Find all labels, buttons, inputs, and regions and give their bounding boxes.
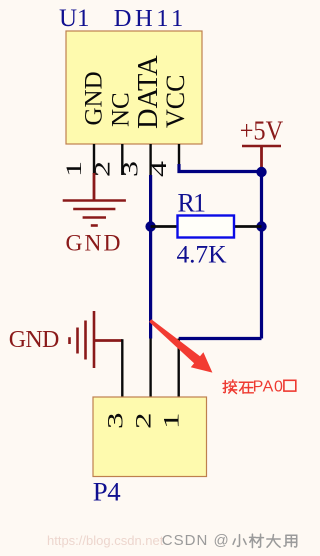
- ground symbol bars: [63, 201, 126, 226]
- junction dot R1 left: [145, 221, 155, 231]
- svg-text:GND: GND: [9, 327, 60, 353]
- watermark glyphs 小材大用: [233, 534, 297, 547]
- wire +5V rail vertical: [260, 170, 263, 339]
- wire P4 pin1 vertical: [177, 339, 179, 398]
- glyph 口: [284, 380, 296, 391]
- svg-text:2: 2: [131, 413, 156, 430]
- pin 4 line: [178, 144, 180, 166]
- svg-text:NC: NC: [108, 92, 135, 127]
- resistor R1 right lead: [234, 225, 262, 228]
- connector P4 body: [93, 397, 207, 477]
- wire bottom horizontal (+5V to P4 pin1): [179, 337, 262, 340]
- svg-text:3: 3: [118, 161, 143, 177]
- wire DATA to P4 pin2: [149, 339, 151, 398]
- glyph 用: [284, 535, 297, 547]
- resistor R1 body: [178, 216, 235, 238]
- junction dot R1 right: [256, 221, 266, 231]
- ground stem (pin 1): [93, 173, 96, 200]
- svg-text:CSDN @: CSDN @: [162, 532, 230, 549]
- svg-text:1: 1: [61, 161, 86, 177]
- annotation red arrow: [149, 319, 212, 372]
- svg-text:GND: GND: [80, 71, 107, 125]
- glyph 接: [223, 380, 237, 394]
- svg-text:PA0: PA0: [253, 378, 284, 395]
- glyph 在: [239, 382, 253, 393]
- glyph 大: [267, 535, 280, 548]
- glyph 小: [233, 535, 246, 547]
- glyph 材: [250, 534, 264, 547]
- junction dot at +5V node: [256, 167, 266, 177]
- svg-text:DH11: DH11: [114, 5, 184, 32]
- left ground stem: [94, 339, 122, 342]
- svg-text:GND: GND: [66, 231, 121, 257]
- annotation text 接在PA0口: [223, 380, 253, 394]
- svg-text:P4: P4: [93, 477, 121, 507]
- power port +5V bar: [242, 145, 281, 148]
- svg-text:VCC: VCC: [161, 75, 190, 128]
- svg-text:R1: R1: [178, 189, 207, 218]
- svg-text:4: 4: [146, 161, 171, 177]
- svg-text:3: 3: [102, 413, 127, 430]
- pin 2 line: [121, 144, 123, 175]
- svg-text:+5V: +5V: [240, 115, 284, 146]
- resistor R1 left lead: [151, 225, 178, 228]
- wire pin4 to +5V rail: [179, 164, 262, 172]
- svg-text:https://blog.csdn.net: https://blog.csdn.net: [47, 533, 164, 548]
- pin 3 line: [149, 144, 151, 176]
- component U1 body: [66, 31, 202, 144]
- left ground symbol bars: [70, 311, 95, 368]
- pin 1 line: [93, 144, 95, 174]
- wire DATA vertical: [149, 175, 152, 339]
- svg-text:1: 1: [159, 413, 184, 430]
- svg-text:U1: U1: [59, 5, 90, 32]
- svg-text:4.7K: 4.7K: [177, 240, 228, 269]
- power port +5V stem: [260, 146, 263, 170]
- wire ground to P4 pin3: [121, 339, 123, 397]
- svg-text:DATA: DATA: [133, 55, 164, 129]
